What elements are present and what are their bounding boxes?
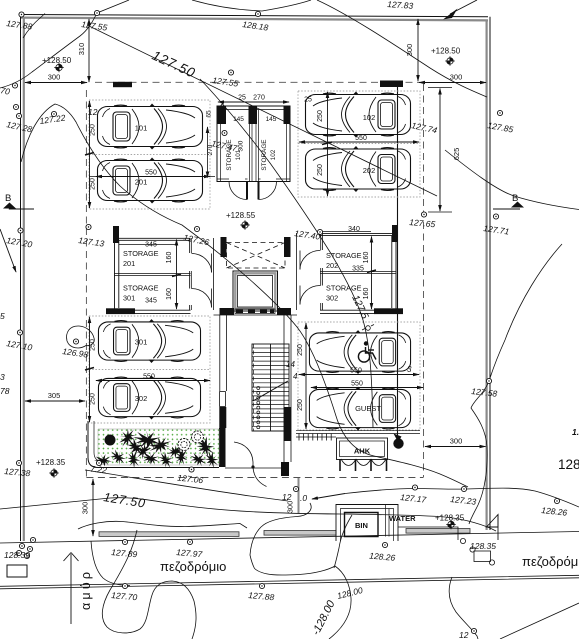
survey point 127.47 in storage: [211, 130, 239, 153]
svg-text:+128.50: +128.50: [42, 56, 72, 65]
survey point 127.97: [176, 539, 203, 559]
svg-text:BIN: BIN: [355, 521, 368, 530]
dimension 340 storage 202: [322, 226, 371, 233]
svg-text:B: B: [5, 193, 11, 204]
section mark B left: [3, 193, 34, 209]
svg-text:STORAGE: STORAGE: [326, 284, 362, 293]
parking stall outline 301/302: [89, 316, 210, 423]
dimension 25 270 storage top: [218, 95, 289, 107]
survey point 126.98: [62, 339, 89, 360]
svg-text:127.50: 127.50: [103, 490, 147, 510]
svg-text:12: 12: [459, 630, 469, 639]
storage 201 label: [123, 249, 159, 268]
car disabled: [309, 330, 410, 374]
svg-text:127.38: 127.38: [4, 466, 31, 478]
setback dashed right: [423, 84, 425, 477]
svg-text:127.26: 127.26: [183, 232, 211, 247]
svg-text:7.22: 7.22: [90, 464, 108, 476]
svg-text:127.40: 127.40: [294, 228, 321, 242]
svg-text:12: 12: [282, 492, 292, 502]
svg-text:160: 160: [363, 288, 370, 300]
svg-text:πεζοδρόμιο: πεζοδρόμιο: [160, 559, 226, 574]
sidewalk curb bar 1: [99, 532, 239, 537]
svg-text:128.: 128.: [558, 457, 579, 472]
svg-text:301: 301: [123, 294, 135, 303]
storage 101 door: [229, 182, 247, 200]
survey point 127.06: [177, 467, 204, 485]
survey point 127.58: [471, 378, 498, 398]
car guest: [309, 387, 410, 431]
survey point 127.22 bed: [90, 464, 108, 476]
svg-text:550: 550: [355, 135, 367, 142]
storage 202 label: [326, 251, 362, 270]
wall left of stairs: [219, 315, 226, 428]
car 102: [306, 92, 411, 138]
svg-text:127.23: 127.23: [450, 494, 477, 507]
dimension 550 stall 201: [89, 170, 215, 177]
car 201: [98, 158, 203, 204]
svg-text:127.50: 127.50: [150, 48, 198, 81]
survey point 128.18: [242, 11, 269, 32]
contour through bin: [334, 515, 352, 568]
svg-text:101: 101: [135, 124, 148, 133]
contour snake bottom-left: [102, 530, 196, 639]
svg-text:128.39: 128.39: [4, 550, 30, 560]
elevator door dashes: [236, 310, 274, 314]
contour 127.58 right side: [469, 244, 562, 524]
svg-text:127.28: 127.28: [6, 119, 34, 134]
dimension 300 bottom-left vertical: [81, 479, 94, 536]
entry steps railing: [296, 434, 336, 441]
corridor wall right: [296, 233, 298, 310]
svg-text:250: 250: [90, 124, 97, 136]
parking stall outline 101/201: [89, 100, 210, 209]
svg-text:302: 302: [135, 394, 148, 403]
svg-text:201: 201: [123, 259, 135, 268]
dimension 250 stalls top-left: [85, 101, 97, 208]
elevator shaft: [233, 271, 278, 311]
contour wave above curb: [78, 521, 247, 529]
storage 101 label: [226, 139, 242, 170]
dimension 300 right-lower: [425, 437, 486, 447]
svg-text:300: 300: [238, 140, 245, 151]
svg-text:127.88: 127.88: [6, 18, 33, 32]
dimension 300 top-right horizontal: [419, 73, 486, 83]
canopy wall block right: [284, 237, 291, 257]
survey point 127.13: [78, 224, 105, 248]
dimension 550 stall disabled: [299, 368, 419, 375]
svg-text:345: 345: [145, 242, 157, 249]
svg-text:25: 25: [304, 97, 312, 104]
boundary left double line: [21, 15, 24, 542]
svg-text:550: 550: [350, 368, 362, 375]
boundary top double line: [21, 15, 488, 21]
survey flag triangle: [487, 515, 499, 541]
svg-text:STORAGE: STORAGE: [123, 284, 159, 293]
svg-text:127.55: 127.55: [212, 75, 239, 89]
svg-text:+128.55: +128.55: [226, 211, 256, 220]
contour at section B right: [445, 150, 579, 210]
car 301: [98, 319, 200, 363]
svg-text:102: 102: [270, 149, 277, 160]
svg-text:550: 550: [143, 374, 155, 381]
plant large mass 1: [131, 428, 165, 451]
road line 1: [0, 532, 579, 544]
svg-text:127.10: 127.10: [6, 338, 34, 352]
survey point 127.10: [6, 330, 34, 353]
entry door swing: [234, 442, 267, 487]
survey tick 127.28b: [16, 113, 21, 118]
svg-text:65: 65: [206, 110, 213, 118]
lobby wall line: [214, 314, 298, 316]
setback dashed bottom: [86, 477, 423, 479]
section mark B right: [493, 193, 524, 209]
wheelchair symbol: [358, 341, 376, 362]
svg-text:550: 550: [145, 170, 157, 177]
shrub circle 2: [192, 431, 204, 443]
street arrow: [64, 553, 79, 625]
survey point 127.26: [183, 226, 211, 247]
svg-text:202: 202: [363, 166, 376, 175]
svg-text:128.26: 128.26: [541, 505, 568, 518]
contour 127.50 long diagonal: [87, 25, 437, 196]
dimension line storage right vertical: [371, 237, 373, 310]
svg-text:300: 300: [48, 73, 61, 82]
car 101: [98, 104, 203, 150]
storage 302 door: [300, 285, 321, 304]
survey point 127.40: [294, 228, 323, 242]
contour top-left rising: [0, 0, 129, 88]
dimension 550 stall 302: [96, 374, 210, 381]
dimension 250 stalls bottom-right: [297, 323, 306, 429]
survey point 127.88: [6, 12, 33, 32]
svg-text:5: 5: [0, 311, 5, 321]
survey point 127.23: [450, 486, 477, 506]
survey point 128.00 small: [336, 585, 364, 601]
svg-text:127.55: 127.55: [81, 19, 108, 33]
survey point 128.26 right: [541, 498, 568, 517]
survey point 127.74: [411, 120, 439, 135]
dimension 300 top-left: [25, 73, 87, 83]
svg-text:128.35: 128.35: [470, 541, 496, 551]
svg-text:+128.50: +128.50: [431, 47, 461, 56]
svg-text:310: 310: [77, 43, 86, 56]
planting bed survey circle: [96, 460, 101, 465]
survey point 127.38: [4, 460, 31, 478]
svg-text:128.00: 128.00: [336, 585, 364, 601]
AHK box: [337, 438, 388, 460]
wall block on top setback left: [113, 82, 132, 87]
svg-text:250: 250: [90, 393, 97, 405]
car 302: [98, 376, 200, 420]
svg-text:160: 160: [166, 288, 173, 300]
svg-text:127.06: 127.06: [177, 473, 204, 486]
svg-text:128.18: 128.18: [242, 19, 269, 33]
survey point 128.04: [282, 486, 307, 503]
survey point 127.83: [387, 0, 414, 11]
svg-text:78: 78: [0, 386, 10, 396]
survey point 127.55 inner: [212, 70, 239, 89]
water step outline: [398, 527, 458, 540]
svg-text:301: 301: [135, 338, 148, 347]
tree filled circle: [105, 435, 116, 446]
contour top-left corner arc: [23, 14, 45, 39]
wall right of stairs: [284, 315, 292, 462]
svg-text:127.22: 127.22: [39, 112, 66, 126]
svg-text:70: 70: [0, 85, 11, 97]
manhole rect bottom-left: [7, 565, 27, 577]
dimension line storage left vertical: [176, 240, 178, 310]
svg-text:127.20: 127.20: [6, 235, 34, 249]
survey point 127.55 top: [81, 10, 108, 32]
plant large mass 2: [194, 434, 218, 460]
survey point 12 bottom: [459, 628, 477, 639]
svg-text:128.26: 128.26: [369, 551, 396, 563]
storage 101/102 walls: [217, 106, 290, 182]
svg-text:127.17: 127.17: [400, 492, 427, 505]
svg-text:4: 4: [293, 372, 298, 381]
contour under planting bed: [85, 470, 288, 501]
svg-text:102: 102: [363, 113, 376, 122]
dimension line storage 270: [207, 127, 209, 178]
survey point 127.22: [39, 111, 66, 126]
svg-text:302: 302: [326, 294, 338, 303]
contour bottom-right corner line: [500, 603, 579, 639]
spot +128.50 left: [42, 56, 72, 72]
elevator wall block right: [277, 308, 291, 315]
svg-text:127.74: 127.74: [411, 120, 439, 135]
svg-text:201: 201: [135, 178, 148, 187]
svg-text:127.85: 127.85: [487, 120, 515, 134]
sidewalk curb bar 3: [406, 529, 470, 534]
svg-text:3: 3: [0, 372, 5, 382]
spot +128.35 road: [435, 514, 465, 530]
contour 127.5 curving branch: [200, 79, 373, 428]
spot +128.35 left: [36, 458, 66, 478]
walk lines right: [296, 431, 420, 434]
contour small left hook: [91, 541, 130, 586]
svg-text:STORAGE: STORAGE: [123, 249, 159, 258]
cluster circles bottom-left: [4, 537, 36, 560]
survey point 128.26 bin: [369, 542, 396, 562]
contour 127.26 diagonal: [21, 104, 468, 487]
boundary right double line: [487, 17, 490, 530]
wall block on top setback right: [380, 81, 403, 88]
dimension 250 stalls top-right: [317, 92, 332, 196]
svg-text:127.70: 127.70: [111, 590, 138, 602]
parking stall outline 102/202: [298, 91, 420, 197]
leader line 128.04: [312, 488, 579, 507]
contour 127.50 bottom: [0, 498, 496, 531]
svg-text:250: 250: [317, 164, 324, 176]
contour mid-bottom descending: [255, 566, 352, 639]
contour top-right: [317, 0, 487, 97]
svg-text:250: 250: [297, 344, 304, 356]
AHK vents: [340, 459, 387, 471]
contour top dip 128.18: [192, 0, 311, 11]
svg-text:270: 270: [253, 95, 265, 102]
road line 2: [0, 575, 579, 589]
survey point 127.85: [487, 110, 515, 134]
parking stall outline disabled/guest: [298, 322, 420, 430]
svg-text:127.88: 127.88: [248, 590, 275, 602]
bin enclosure: [336, 505, 398, 542]
storage 102 label: [261, 139, 277, 170]
svg-text:127.13: 127.13: [78, 235, 105, 249]
svg-text:GUEST: GUEST: [355, 404, 381, 413]
planting bed walls: [88, 421, 219, 468]
canopy dashed with X brace: [227, 243, 286, 269]
svg-text:1.: 1.: [572, 427, 579, 437]
survey point 127.20: [6, 228, 34, 250]
stairs bottom line: [252, 430, 291, 432]
survey point 127.65: [409, 212, 436, 229]
dimension 300 top-right vertical: [405, 19, 418, 81]
setback dashed top: [95, 81, 423, 83]
svg-text:335: 335: [352, 266, 364, 273]
contour through curb gap: [250, 503, 311, 569]
shrub circle 1: [178, 439, 190, 451]
svg-text:250: 250: [317, 110, 324, 122]
svg-text:127.47: 127.47: [211, 138, 239, 153]
svg-text:12: 12: [88, 107, 98, 117]
svg-text:-128.00: -128.00: [310, 598, 338, 637]
svg-text:160: 160: [363, 252, 370, 264]
stairs: [252, 344, 289, 431]
survey point 127.17: [400, 485, 427, 505]
column dot: [393, 434, 403, 449]
survey point 127.28: [6, 104, 34, 134]
elevator wall block left: [220, 308, 235, 315]
spot +128.50 right: [431, 47, 461, 66]
stair balusters: [257, 387, 260, 429]
svg-text:250: 250: [90, 178, 97, 190]
svg-text:345: 345: [145, 298, 157, 305]
dimension 310 vertical: [77, 19, 89, 82]
spot elevation +128.55: [226, 211, 256, 230]
entry sill line: [225, 467, 288, 469]
survey point 127.71: [483, 214, 510, 237]
dimension 300 bottom-center vertical: [286, 478, 299, 513]
storage 202 door: [300, 250, 321, 269]
sidewalk curb bar 2: [264, 531, 336, 536]
survey point 127.89: [111, 539, 138, 559]
canopy wall block left: [221, 237, 227, 257]
dimension 250 stalls bottom-left: [85, 317, 97, 422]
tree blob outline: [67, 326, 95, 348]
upper floor edge line east: [397, 87, 399, 440]
svg-text:αμύρ: αμύρ: [79, 569, 93, 610]
planting bed green area: [98, 429, 219, 465]
svg-text:160: 160: [166, 252, 173, 264]
planter wall black left: [219, 428, 226, 467]
svg-text:550: 550: [351, 381, 363, 388]
svg-text:STORAGE: STORAGE: [261, 139, 268, 170]
dimension 550 stall 102: [299, 135, 419, 142]
corridor wall left: [213, 238, 215, 310]
dimension 305 left: [25, 391, 85, 401]
label 70 left edge: [0, 83, 18, 97]
survey point 127.70: [111, 583, 138, 602]
plant silhouettes bottom row: [94, 440, 221, 470]
svg-text:145: 145: [233, 116, 244, 123]
small circle marker disabled stall: [362, 325, 374, 331]
survey point 128.35 road: [470, 541, 496, 551]
svg-text:625: 625: [452, 148, 461, 161]
leader arrow at border: [0, 229, 16, 272]
svg-text:127.89: 127.89: [111, 547, 138, 559]
car 202: [306, 146, 411, 192]
svg-text:305: 305: [48, 391, 61, 400]
storage 201/301 walls: [106, 226, 191, 314]
dimension 625 vertical: [428, 88, 461, 213]
storage 302 label: [326, 284, 362, 303]
svg-text:300: 300: [81, 502, 90, 515]
entry wall black right: [281, 462, 289, 476]
north arrow 127.83: [443, 0, 477, 20]
svg-text:.0: .0: [300, 493, 307, 503]
setback dashed left: [85, 90, 87, 478]
dimension 550 stall guest: [311, 381, 423, 388]
contour bottom-right descending: [449, 577, 478, 639]
svg-text:+128.35: +128.35: [36, 458, 66, 467]
survey monument: [460, 538, 494, 565]
survey point 127.88 road: [248, 583, 275, 602]
svg-text:STORAGE: STORAGE: [326, 251, 362, 260]
svg-text:πεζοδρόμ: πεζοδρόμ: [522, 554, 578, 569]
svg-text:127.65: 127.65: [409, 217, 436, 229]
dimension 345 storage 201: [119, 242, 176, 249]
svg-text:127.58: 127.58: [471, 386, 498, 399]
storage 102 door: [259, 182, 277, 200]
storage 301 door: [192, 289, 212, 308]
svg-text:127.83: 127.83: [387, 0, 414, 11]
svg-text:340: 340: [348, 226, 360, 233]
svg-text:300: 300: [450, 437, 463, 446]
svg-text:127.97: 127.97: [176, 547, 203, 559]
storage 301 label: [123, 284, 159, 303]
storage 202/302 walls: [320, 225, 403, 314]
storage 201 door: [192, 254, 212, 273]
svg-text:250: 250: [297, 399, 304, 411]
svg-text:3: 3: [407, 365, 412, 374]
svg-text:300: 300: [286, 501, 295, 514]
